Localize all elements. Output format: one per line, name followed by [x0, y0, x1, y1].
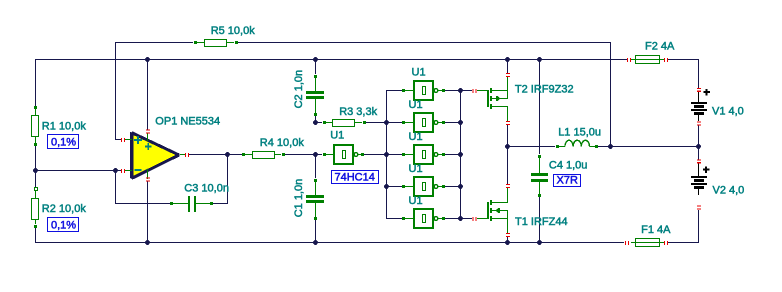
svg-text:X7R: X7R [557, 175, 578, 187]
svg-text:L1 15,0u: L1 15,0u [558, 127, 601, 139]
svg-text:R2 10,0k: R2 10,0k [42, 203, 87, 215]
svg-text:T2 IRF9Z32: T2 IRF9Z32 [515, 83, 574, 95]
svg-text:U1: U1 [409, 131, 423, 143]
svg-text:0,1%: 0,1% [51, 137, 76, 149]
svg-text:C3 10,0n: C3 10,0n [184, 182, 229, 194]
svg-text:R3 3,3k: R3 3,3k [339, 106, 377, 118]
svg-text:V1 4,0: V1 4,0 [712, 105, 744, 117]
svg-text:C4 1,0u: C4 1,0u [549, 159, 588, 171]
svg-text:74HC14: 74HC14 [335, 172, 375, 184]
svg-text:0,1%: 0,1% [51, 220, 76, 232]
svg-text:U1: U1 [409, 163, 423, 175]
svg-text:C2 1,0n: C2 1,0n [293, 70, 305, 109]
svg-text:U1: U1 [330, 129, 344, 141]
svg-text:R1 10,0k: R1 10,0k [42, 121, 87, 133]
svg-text:U1: U1 [409, 195, 423, 207]
svg-text:T1 IRFZ44: T1 IRFZ44 [515, 216, 568, 228]
svg-text:OP1 NE5534: OP1 NE5534 [155, 116, 220, 128]
svg-text:R5 10,0k: R5 10,0k [211, 25, 256, 37]
svg-text:F2 4A: F2 4A [645, 41, 675, 53]
svg-text:R4 10,0k: R4 10,0k [260, 137, 305, 149]
svg-text:V2 4,0: V2 4,0 [713, 185, 745, 197]
svg-text:U1: U1 [412, 66, 426, 78]
svg-text:C1 1,0n: C1 1,0n [293, 179, 305, 218]
svg-text:U1: U1 [409, 99, 423, 111]
svg-text:F1 4A: F1 4A [641, 224, 671, 236]
